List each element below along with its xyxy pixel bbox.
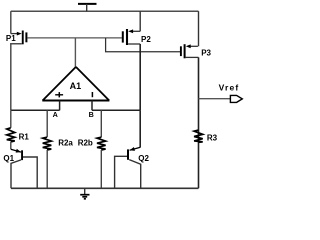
svg-text:A1: A1	[70, 81, 82, 91]
svg-text:Q2: Q2	[138, 154, 149, 163]
svg-text:R3: R3	[207, 134, 218, 143]
svg-text:Q1: Q1	[3, 154, 14, 163]
svg-text:R1: R1	[19, 132, 30, 141]
svg-text:R2b: R2b	[78, 138, 93, 147]
svg-text:P1: P1	[6, 34, 16, 43]
svg-text:R2a: R2a	[58, 138, 73, 147]
svg-text:Vref: Vref	[219, 83, 240, 93]
svg-text:P3: P3	[201, 48, 211, 57]
svg-text:A: A	[53, 110, 58, 119]
svg-text:P2: P2	[141, 35, 151, 44]
svg-text:B: B	[89, 110, 94, 119]
